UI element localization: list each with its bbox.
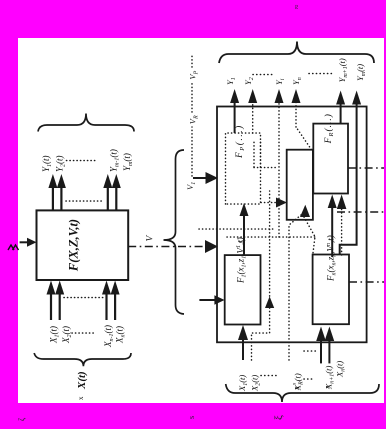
svg-text:VP: VP (188, 70, 200, 79)
svg-text:V1: V1 (185, 182, 197, 190)
svg-text:x: x (77, 396, 85, 400)
svg-text:X2(t): X2(t) (61, 326, 73, 344)
svg-text:Xn(t): Xn(t) (335, 361, 347, 378)
svg-text:Xn-1(t): Xn-1(t) (103, 325, 115, 348)
svg-text:Ym+1(t): Ym+1(t) (337, 58, 349, 82)
svg-text:ζ: ζ (17, 417, 26, 421)
svg-text:X1(t): X1(t) (237, 375, 249, 392)
svg-text:s: s (187, 416, 196, 419)
svg-text:FR(...): FR(...) (323, 113, 335, 144)
svg-text:V: V (146, 235, 156, 242)
svg-text:Y2(t): Y2(t) (55, 155, 67, 172)
svg-text:Y2: Y2 (243, 77, 255, 85)
svg-text:ς: ς (235, 239, 244, 243)
svg-text:Xn(t): Xn(t) (115, 326, 127, 344)
svg-text:Yn: Yn (291, 77, 303, 85)
svg-text:Y1(t): Y1(t) (41, 155, 53, 172)
svg-text:≈: ≈ (292, 4, 301, 9)
svg-text:X1(t): X1(t) (49, 326, 61, 344)
svg-text:Y1: Y1 (225, 77, 237, 85)
svg-text:F1(x1,z1,V1,t): F1(x1,z1,V1,t) (236, 237, 248, 284)
svg-text:X2(t): X2(t) (250, 375, 262, 392)
svg-text:Ym(t): Ym(t) (355, 64, 367, 81)
svg-text:X(t): X(t) (76, 371, 88, 390)
svg-text:Yi: Yi (274, 78, 286, 85)
svg-text:VR: VR (188, 115, 200, 124)
svg-text:ξ: ξ (273, 415, 285, 420)
svg-text:Ym-1(t): Ym-1(t) (109, 149, 121, 172)
svg-text:x: x (293, 386, 301, 391)
svg-text:F(X,Z,V,t): F(X,Z,V,t) (67, 219, 81, 272)
svg-text:Ym(t): Ym(t) (122, 153, 134, 171)
svg-text:FP(...): FP(...) (234, 124, 246, 159)
svg-text:x: x (324, 385, 332, 390)
